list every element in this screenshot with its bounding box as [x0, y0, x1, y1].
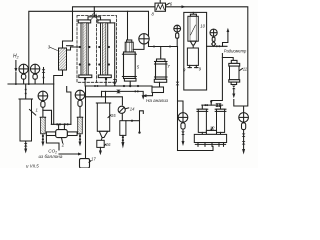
- svg-text:7: 7: [167, 64, 170, 69]
- svg-text:11: 11: [243, 67, 247, 72]
- svg-text:5: 5: [137, 65, 140, 70]
- svg-text:1: 1: [36, 108, 38, 113]
- svg-text:8: 8: [152, 12, 155, 17]
- svg-text:14: 14: [130, 107, 135, 112]
- svg-text:Радиометр: Радиометр: [224, 49, 247, 54]
- svg-text:15: 15: [111, 113, 116, 118]
- svg-text:2: 2: [61, 143, 65, 148]
- svg-text:6: 6: [170, 2, 173, 7]
- svg-text:16: 16: [106, 142, 111, 147]
- svg-text:12: 12: [210, 125, 215, 130]
- svg-text:3: 3: [48, 45, 51, 50]
- svg-text:10: 10: [200, 24, 205, 29]
- svg-text:и VII.5: и VII.5: [26, 163, 39, 168]
- svg-text:9: 9: [183, 68, 186, 73]
- svg-text:из баллона: из баллона: [39, 154, 63, 159]
- svg-text:17: 17: [91, 156, 96, 161]
- svg-text:H2: H2: [13, 54, 19, 60]
- svg-text:На анализ: На анализ: [146, 98, 169, 103]
- svg-text:9: 9: [199, 67, 202, 72]
